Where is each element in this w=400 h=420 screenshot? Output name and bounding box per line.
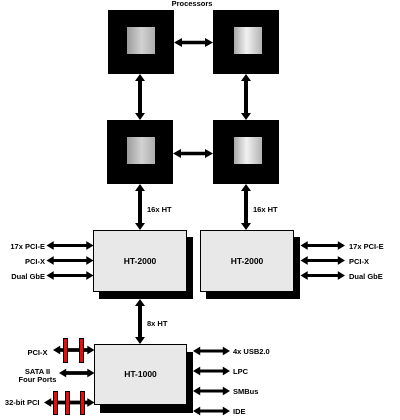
label 4x USB2.0 — [233, 348, 270, 356]
label Dual GbE right — [349, 273, 383, 281]
HT-1000 southbridge U3 shadow — [100, 352, 193, 413]
HT-2000 tunnel U1 body — [93, 230, 187, 292]
processor CPU4 die — [234, 137, 262, 164]
label 32-bit PCI — [0, 399, 40, 407]
wire U2 Dual GbE bus — [301, 271, 346, 280]
label PCI-X right — [349, 258, 369, 266]
HT-2000 tunnel U2 shadow — [206, 237, 300, 299]
label PCI-X left — [0, 258, 45, 266]
processor CPU1 die — [127, 27, 155, 54]
label 17x PCI-E left — [0, 243, 45, 251]
wire U3 32-bit PCI bus — [44, 398, 95, 407]
wire U3 IDE bus — [193, 407, 230, 416]
wire CPU3-CPU4 HT link — [173, 149, 213, 158]
processor CPU2 die — [234, 27, 262, 54]
label 16x HT left — [147, 206, 172, 214]
processor CPU2 package — [213, 10, 279, 74]
label 17x PCI-E right — [349, 243, 384, 251]
HT-2000 tunnel U2 body — [200, 230, 294, 292]
label SMBus — [233, 388, 258, 396]
processor CPU4 package — [213, 120, 279, 184]
wire U3 USB bus — [193, 347, 230, 356]
wire U1 Dual GbE bus — [47, 271, 94, 280]
HT-1000 southbridge U3 label — [94, 370, 187, 379]
32-bit PCI slot bar 1 — [53, 391, 58, 415]
label 8x HT — [147, 320, 167, 328]
HT-2000 tunnel U1 label — [93, 257, 187, 266]
wire U3 LPC bus — [193, 367, 230, 376]
wire U2 PCI-X bus — [301, 256, 346, 265]
PCI-X slot bar 2 — [79, 338, 84, 363]
wire U1 PCI-X bus — [47, 256, 94, 265]
wire CPU3-U1 16x HT link — [135, 184, 145, 230]
32-bit PCI slot bar 2 — [65, 391, 70, 415]
wire U1-U3 8x HT link — [135, 299, 145, 344]
label Dual GbE left — [0, 273, 45, 281]
wire U1 17x PCI-E bus — [47, 241, 94, 250]
wire CPU1-CPU3 HT link — [135, 74, 145, 120]
wire CPU4-U2 16x HT link — [241, 184, 251, 230]
wire CPU1-CPU2 HT link — [174, 38, 213, 47]
label SATA II Four Ports — [7, 368, 68, 384]
label 16x HT right — [253, 206, 278, 214]
32-bit PCI slot bar 3 — [80, 391, 85, 415]
HT-2000 tunnel U1 shadow — [99, 237, 193, 299]
title Processors — [152, 0, 232, 8]
label IDE — [233, 408, 246, 416]
wire U2 17x PCI-E bus — [301, 241, 346, 250]
wire U3 SATA II bus — [59, 369, 95, 378]
label PCI-X south — [0, 349, 48, 357]
HT-2000 tunnel U2 label — [200, 257, 294, 266]
processor CPU3 die — [127, 137, 155, 164]
processor CPU1 package — [108, 10, 174, 74]
processor CPU3 package — [107, 120, 173, 184]
wire U3 SMBus — [193, 387, 230, 396]
wire CPU2-CPU4 HT link — [241, 74, 251, 120]
wire U3 PCI-X bus — [53, 346, 95, 355]
label LPC — [233, 368, 248, 376]
HT-1000 southbridge U3 body — [94, 344, 187, 405]
PCI-X slot bar 1 — [63, 338, 68, 363]
